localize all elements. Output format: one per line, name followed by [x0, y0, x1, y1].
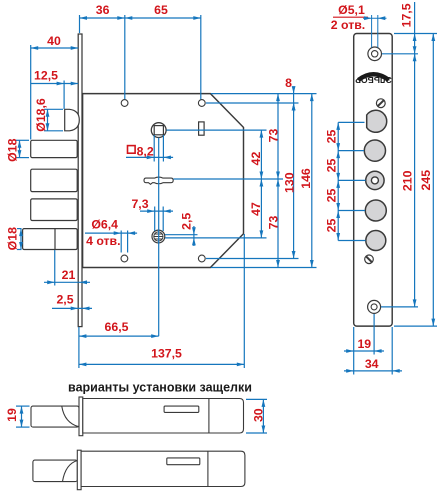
label 137,5 [151, 347, 182, 361]
variant2 faceplate [77, 450, 81, 490]
fixing screw lower [365, 255, 374, 264]
extension line faceplate bottom [78, 327, 80, 368]
dimension 36/65 line [80, 16, 201, 20]
svg-text:4 отв.: 4 отв. [86, 234, 120, 248]
label 25 d [325, 219, 339, 233]
dimension 66,5 line [79, 334, 159, 338]
dimension 6,4 extension lines [121, 231, 127, 253]
label 42 [249, 152, 263, 166]
svg-text:Ø18,6: Ø18,6 [34, 98, 48, 132]
lock case outline [83, 94, 244, 268]
mounting hole bottom-left [121, 255, 128, 262]
extension line plate left bottom [353, 327, 355, 375]
dimension 73/73 line [276, 94, 280, 268]
label 36 [96, 3, 110, 17]
dimension 137,5 line [79, 363, 244, 367]
dimension 7,3 extension lines [155, 207, 164, 232]
dimension 25 chain line [336, 122, 340, 240]
screw hole bottom [368, 300, 381, 313]
svg-text:47: 47 [249, 202, 263, 216]
svg-text:19: 19 [357, 337, 371, 351]
label Ø18,6 [34, 98, 48, 132]
latch bolt front (D shape) [367, 110, 387, 132]
dimension 19 line (front) [344, 349, 384, 353]
variant1 body [83, 399, 244, 434]
faceplate (side view) [78, 34, 82, 327]
svg-text:66,5: 66,5 [105, 320, 129, 334]
logo ELBOR [355, 74, 392, 85]
label 25 a [325, 130, 339, 144]
extension line plate right bottom [391, 327, 393, 375]
svg-text:30: 30 [252, 408, 266, 422]
label Ø6,4 [91, 218, 118, 232]
svg-text:25: 25 [325, 189, 339, 203]
extension line bolt tip [30, 45, 32, 140]
dimension 8 line [292, 86, 296, 112]
bolt front 2 [364, 140, 385, 161]
extension line plate top right [394, 33, 437, 35]
mounting hole top-right [198, 100, 205, 107]
svg-text:12,5: 12,5 [34, 69, 58, 83]
extension line hole1 axis [124, 15, 126, 99]
extension line holes top right [206, 102, 299, 104]
bolt front 5 [366, 231, 386, 251]
label 2,5 [56, 293, 73, 307]
label 12,5 [34, 69, 58, 83]
label Ø18 top [6, 138, 20, 161]
svg-text:36: 36 [96, 3, 110, 17]
spindle square hole 8.2 [154, 126, 163, 135]
variant1 faceplate [79, 397, 83, 436]
dimension 2,5 line [52, 307, 92, 311]
svg-text:73: 73 [267, 216, 281, 230]
bolt front 4 [365, 200, 386, 221]
label 19 variant [5, 408, 19, 422]
svg-text:2 отв.: 2 отв. [331, 18, 365, 32]
variant1 latch bolt [31, 406, 79, 427]
label square symbol [128, 146, 136, 154]
svg-text:Ø18: Ø18 [6, 138, 20, 161]
label 2,5 cyl [180, 213, 194, 230]
extension line case bottom right [211, 267, 317, 269]
label 40 [47, 34, 61, 48]
variant2 latch bolt [33, 460, 77, 482]
extension line plate bottom right [394, 325, 437, 327]
svg-text:25: 25 [325, 130, 339, 144]
cylinder screw hole [152, 230, 165, 243]
deadbolt 2 [31, 169, 77, 191]
svg-text:ЭЛЬБОР: ЭЛЬБОР [355, 75, 392, 85]
label 66,5 [105, 320, 129, 334]
label 4 отв. [86, 234, 120, 248]
svg-text:варианты установки защелки: варианты установки защелки [68, 381, 252, 395]
label Ø18 lower [6, 227, 20, 250]
svg-text:40: 40 [47, 34, 61, 48]
stop slot [199, 122, 205, 135]
svg-text:34: 34 [365, 357, 379, 371]
label 73 lower [267, 216, 281, 230]
extension line hole2 axis [200, 15, 202, 99]
dimension 2,5 cyl line [192, 226, 196, 246]
dimension 8,2 line [126, 156, 173, 160]
bolt front 3 (with pin) [366, 171, 384, 189]
dimension 34 line [344, 369, 402, 373]
extension line bottom hole right [381, 306, 418, 308]
label Ø5,1 [338, 3, 365, 17]
label 245 [419, 170, 433, 191]
dimension 130 line [292, 103, 296, 259]
label 19 front [357, 337, 371, 351]
dimension 7,3 line [140, 209, 173, 213]
svg-text:17,5: 17,5 [400, 3, 414, 27]
svg-text:19: 19 [5, 408, 19, 422]
svg-text:8,2: 8,2 [137, 144, 154, 158]
svg-text:7,3: 7,3 [131, 197, 148, 211]
label 7,3 [131, 197, 148, 211]
label 65 [154, 3, 168, 17]
extension line key axis right [174, 178, 284, 180]
variant2 body [81, 451, 245, 486]
svg-text:Ø6,4: Ø6,4 [91, 218, 118, 232]
extension line holes bottom right [206, 258, 299, 260]
variant1 slot [164, 406, 199, 412]
dimension Ø18 top line [16, 140, 29, 157]
dimension 210 line [413, 54, 417, 307]
label 30 [252, 408, 266, 422]
label 47 [249, 202, 263, 216]
dimension 12,5 line [31, 82, 78, 86]
extension line bottom hole axis [373, 314, 375, 355]
svg-text:Ø18: Ø18 [6, 227, 20, 250]
label 210 [401, 170, 415, 191]
deadbolt 1 [31, 140, 77, 157]
dimension 245 line [431, 34, 435, 327]
label 21 [62, 268, 76, 282]
label 8 [285, 76, 292, 90]
extension line case top right [211, 93, 317, 95]
latch bolt (side view) [65, 109, 80, 131]
dimension 30 line [246, 399, 267, 433]
deadbolt 3 [31, 199, 77, 221]
svg-text:42: 42 [249, 152, 263, 166]
svg-text:137,5: 137,5 [151, 347, 182, 361]
variant1 bevel curve [62, 406, 79, 427]
dimension 42/47 line [260, 130, 264, 238]
spindle hub circle [151, 123, 166, 138]
svg-text:25: 25 [325, 159, 339, 173]
svg-text:2,5: 2,5 [180, 213, 194, 230]
label 8,2 [137, 144, 154, 158]
svg-text:25: 25 [325, 219, 339, 233]
mounting hole top-left [121, 100, 128, 107]
dimension Ø18 lower line [17, 229, 23, 250]
label 130 [283, 172, 297, 193]
dimension 6,4 line [85, 231, 137, 235]
extension line spindle axis right [167, 129, 267, 131]
keyhole (lever key slot) [144, 177, 173, 184]
extension line latch tip [63, 81, 65, 110]
label 25 b [325, 159, 339, 173]
extension line faceplate top [79, 15, 81, 33]
lower deadbolt [23, 229, 78, 250]
svg-text:73: 73 [267, 129, 281, 143]
dimension Ø18,6 line [44, 109, 63, 131]
svg-text:65: 65 [154, 3, 168, 17]
dimension 8,2 extension lines [154, 135, 163, 162]
title text [68, 381, 252, 395]
svg-text:2,5: 2,5 [56, 293, 73, 307]
dimension 17,5 line [413, 2, 417, 60]
dimension Ø5,1 leader [333, 15, 387, 48]
svg-text:8: 8 [285, 76, 292, 90]
svg-text:146: 146 [299, 168, 313, 189]
label 73 upper [267, 129, 281, 143]
variant1 divider [208, 399, 210, 434]
screw hole top [368, 47, 382, 61]
variant2 divider [207, 451, 209, 486]
dimension 40 line [31, 46, 78, 50]
label 25 c [325, 189, 339, 203]
fixing screw upper [376, 99, 385, 108]
svg-text:21: 21 [62, 268, 76, 282]
dimension 19 variant line [16, 406, 30, 427]
svg-text:Ø5,1: Ø5,1 [338, 3, 365, 17]
dimension 21 line [44, 280, 90, 284]
label 34 [365, 357, 379, 371]
svg-text:210: 210 [401, 170, 415, 191]
label 146 [299, 168, 313, 189]
variant2 bevel curve [63, 461, 78, 482]
variant2 slot [167, 458, 200, 465]
centerline spindle axis [158, 138, 160, 336]
faceplate front view [354, 34, 393, 327]
dimension 146 line [310, 94, 314, 268]
svg-text:245: 245 [419, 170, 433, 191]
svg-text:130: 130 [283, 172, 297, 193]
cylinder offset lines [165, 235, 267, 238]
extension line lower bolt rear [54, 250, 56, 286]
label 2 отв. [331, 18, 365, 32]
mounting hole bottom-right [198, 255, 205, 262]
extension line case right lower [243, 234, 245, 368]
leader lines bolts [338, 122, 365, 240]
label 17,5 [400, 3, 414, 27]
extension line hole top right [382, 53, 418, 55]
